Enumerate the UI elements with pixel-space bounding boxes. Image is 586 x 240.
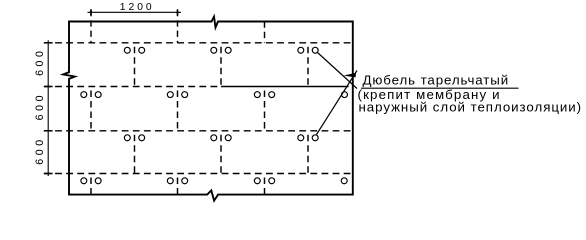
- svg-text:Дюбель тарельчатый: Дюбель тарельчатый: [363, 72, 510, 87]
- svg-text:600: 600: [34, 136, 46, 164]
- svg-text:1200: 1200: [120, 2, 155, 13]
- svg-text:600: 600: [34, 47, 46, 75]
- svg-text:наружный слой теплоизоляции): наружный слой теплоизоляции): [359, 100, 583, 115]
- svg-text:600: 600: [34, 92, 46, 120]
